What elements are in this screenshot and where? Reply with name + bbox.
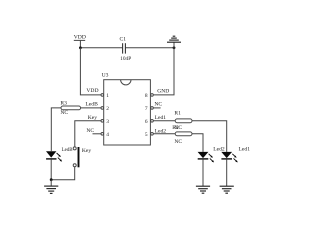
resistor R3 [60,100,80,109]
wire GND pin8 to top rail [153,48,174,95]
svg-text:6: 6 [145,119,148,125]
svg-text:7: 7 [145,106,148,112]
pin 3 [101,119,109,125]
ground (earth) below Led1 [220,186,234,193]
svg-text:8: 8 [145,93,148,99]
svg-text:VDD: VDD [74,35,86,41]
svg-text:Led2: Led2 [155,129,167,135]
svg-text:NC: NC [154,102,162,108]
svg-text:4: 4 [106,132,109,138]
LED Led2 [198,152,215,163]
svg-text:R3: R3 [60,100,67,106]
junction at top ground [173,46,176,49]
wire pin 6 to R1 [153,120,175,122]
wire top rail right segment [125,47,174,49]
pin 2 [101,106,109,112]
svg-text:VDD: VDD [86,88,98,94]
ground (earth) bottom left [44,180,58,194]
svg-text:LedB: LedB [85,102,98,108]
capacitor C1 [120,37,127,54]
wire Led2 to ground [202,160,204,187]
pin 7 [145,106,153,112]
wire LedB to ground [50,160,52,180]
resistor R2 [175,132,192,136]
svg-text:Led2: Led2 [213,147,225,153]
svg-text:LedB: LedB [62,148,74,153]
svg-text:NC: NC [174,139,182,145]
svg-text:Key: Key [88,115,98,121]
svg-text:C1: C1 [120,37,127,43]
ground (earth) below Led2 [196,186,210,193]
svg-text:2: 2 [106,106,109,112]
LED Led1 [221,152,238,163]
LED LedB [46,151,62,161]
svg-text:R1: R1 [174,111,181,117]
svg-text:GND: GND [157,89,169,95]
svg-text:NC: NC [86,128,94,134]
IC U3 [102,73,151,145]
svg-text:104P: 104P [120,56,131,62]
wire pin 7 stub [153,107,160,109]
svg-text:5: 5 [145,132,148,138]
wire R1 to Led1 [192,121,227,152]
pin 1 [101,93,109,99]
wire Led1 to ground [226,160,228,187]
wire R3 to pin 2 [81,107,101,109]
svg-text:R2: R2 [172,125,179,131]
pin 5 [145,132,153,138]
wire top rail left segment [80,47,122,49]
pin 6 [145,119,153,125]
junction at VDD [79,46,82,49]
power VDD [74,35,86,48]
pin 4 [101,132,109,138]
svg-text:3: 3 [106,119,109,125]
wire VDD net to pin 1 [80,48,101,95]
wire R3 left down to LedB [51,108,61,151]
junction bottom left [50,178,53,181]
pin 8 [145,93,153,99]
svg-text:Led1: Led1 [155,115,167,121]
resistor R1 [174,111,192,123]
wire pin 4 stub [93,133,101,135]
svg-text:1: 1 [106,93,109,99]
wire R2 to Led2 [192,134,203,152]
svg-text:U3: U3 [102,73,109,79]
svg-text:NC: NC [60,110,68,116]
svg-text:Key: Key [82,148,92,154]
switch Key (push button) [73,147,91,167]
wire pin 5 to R2 [153,133,175,135]
wire switch to bottom rail [51,167,74,180]
wire Key net pin 3 [75,121,101,147]
svg-text:Led1: Led1 [239,146,251,152]
ground (earth, inverted) top right [167,36,181,48]
